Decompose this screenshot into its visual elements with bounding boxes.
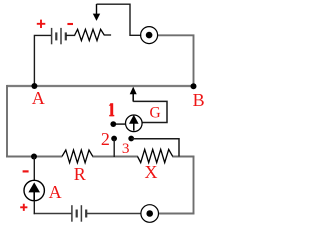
key K2 (bottom, circle with dot) xyxy=(141,205,159,223)
wire: terminal 3 over resistor X to its right end xyxy=(131,139,179,157)
rheostat wiper arrow xyxy=(96,4,98,15)
wire: battery B1 to rheostat xyxy=(66,34,75,36)
wire: lower branch horizontal between R and X xyxy=(92,156,137,158)
terminal 2 (binding post dot) xyxy=(111,136,117,142)
junction: node below A joining ammeter branch xyxy=(31,154,37,160)
svg-text:A: A xyxy=(49,182,62,202)
label: - polarity at ammeter xyxy=(23,170,29,172)
wire: wiper arm up and over to key K1 xyxy=(97,4,142,35)
wire: top loop, key to corner and down to node B xyxy=(158,35,194,86)
node A (junction dot on wire AB) xyxy=(31,83,37,89)
label: + polarity at ammeter xyxy=(20,204,27,211)
wire: junction down to ammeter A1 xyxy=(33,157,35,181)
wire: lower branch horizontal left segment xyxy=(6,156,62,158)
wire: bottom loop horizontal, ammeter corner to battery xyxy=(34,213,72,215)
jockey (sliding contact arrow on wire AB) xyxy=(130,87,137,95)
node B (junction dot, right end of wire AB) xyxy=(191,83,197,89)
terminal 3 (binding post dot) xyxy=(128,136,134,142)
wire: bottom loop horizontal, battery to key xyxy=(86,213,141,215)
wire: terminal 2 down to R-X junction xyxy=(113,139,115,157)
wire: jockey to galvanometer G xyxy=(133,101,167,122)
svg-text:3: 3 xyxy=(122,140,130,157)
svg-text:X: X xyxy=(145,162,158,182)
wire: left edge vertical from A-wire down to lower branch xyxy=(6,85,8,158)
wire: ammeter A1 down to bottom loop corner xyxy=(33,201,35,215)
label: terminal 1 xyxy=(109,103,114,116)
svg-text:2: 2 xyxy=(101,129,110,149)
svg-text:R: R xyxy=(74,164,86,184)
svg-text:B: B xyxy=(193,90,205,110)
svg-text:A: A xyxy=(32,88,45,108)
resistor R xyxy=(62,150,93,163)
label: - polarity of battery B1 xyxy=(67,23,73,25)
terminal 1 (binding post dot) xyxy=(110,121,116,127)
wire: battery branch from node A up to battery xyxy=(34,35,51,86)
galvanometer G (circle with up arrow) xyxy=(126,115,143,132)
svg-text:G: G xyxy=(149,104,160,121)
wire: bottom loop horizontal, key to right corner xyxy=(158,213,194,215)
wire: lower branch horizontal right of X xyxy=(172,156,194,158)
rheostat Rh (variable resistor, top) xyxy=(75,29,111,40)
resistor X xyxy=(138,149,173,162)
wire: galvanometer G to terminal 1 xyxy=(114,123,126,125)
wire: potentiometer wire A-B xyxy=(7,85,194,87)
label: + polarity of battery B1 xyxy=(37,20,46,28)
battery B1 (top, driver cell) xyxy=(52,28,66,44)
ammeter A1 (circle with up arrow) xyxy=(24,180,44,200)
wire: right vertical of bottom loop xyxy=(193,156,195,215)
key K1 (top, circle with dot) xyxy=(141,27,158,44)
battery B2 (bottom, auxiliary cell) xyxy=(72,205,86,222)
